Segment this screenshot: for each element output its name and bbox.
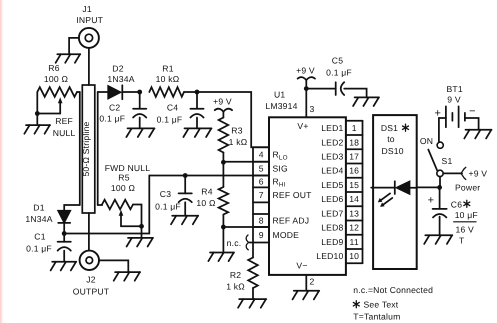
capacitor C6 10uF tantalum <box>424 187 478 245</box>
svg-text:n.c.: n.c. <box>227 238 242 248</box>
junction R4 bottom <box>221 225 226 230</box>
svg-text:15: 15 <box>349 180 359 190</box>
pin 2 stub (V-) <box>306 275 314 291</box>
svg-text:R1: R1 <box>162 64 173 74</box>
svg-text:R4: R4 <box>201 187 212 197</box>
svg-text:INPUT: INPUT <box>76 15 103 25</box>
svg-text:3: 3 <box>310 104 315 114</box>
pin labels LED1-LED10 <box>316 123 343 261</box>
svg-text:0.1 μF: 0.1 μF <box>157 114 183 124</box>
svg-text:10 μF: 10 μF <box>455 210 478 220</box>
diode D2 1N34A <box>98 64 140 100</box>
svg-text:+9 V: +9 V <box>213 97 232 107</box>
resistor R2 1k <box>226 258 258 300</box>
note n.c. <box>353 285 433 295</box>
svg-text:2: 2 <box>310 277 315 287</box>
wire SIG to pin 5 <box>223 161 269 163</box>
switch S1 <box>420 136 453 187</box>
svg-text:1N34A: 1N34A <box>25 214 52 224</box>
stripline Z1 (50-ohm stripline) <box>81 85 95 213</box>
battery BT1 9V <box>434 84 478 142</box>
svg-text:10 kΩ: 10 kΩ <box>156 74 180 84</box>
svg-text:1: 1 <box>352 123 357 133</box>
svg-text:BT1: BT1 <box>447 84 463 94</box>
svg-text:D2: D2 <box>112 64 123 74</box>
resistor R1 10k <box>149 64 197 97</box>
junction C3 tap <box>183 173 188 178</box>
pin boxes 4-9 (left side of U1) <box>253 147 269 257</box>
svg-text:LED8: LED8 <box>321 223 343 233</box>
svg-text:5: 5 <box>259 164 264 174</box>
capacitor C5 0.1uF <box>306 55 366 97</box>
svg-text:C5: C5 <box>332 55 343 65</box>
ground C5 <box>353 97 379 106</box>
svg-text:C6: C6 <box>451 200 462 210</box>
capacitor C3 0.1uF <box>155 176 198 225</box>
svg-text:U1: U1 <box>274 90 285 100</box>
resistor R3 1k <box>219 118 248 163</box>
wire R4 node to pin 8 (REF ADJ) <box>223 226 269 228</box>
svg-text:LED10: LED10 <box>316 251 343 261</box>
svg-text:17: 17 <box>349 152 359 162</box>
svg-text:LED6: LED6 <box>321 194 343 204</box>
junction SIG node (R3/R4/pin5) <box>221 160 226 165</box>
svg-text:+9 V: +9 V <box>469 168 488 178</box>
svg-text:n.c.=Not Connected: n.c.=Not Connected <box>353 285 433 295</box>
junction switch/C6/LED node <box>437 185 442 190</box>
diode D1 1N34A <box>25 203 79 234</box>
pin 3 stub (V+) <box>306 89 314 117</box>
LED symbol inside DS box <box>371 181 417 207</box>
svg-text:7: 7 <box>259 190 264 200</box>
junction R1-C4 <box>195 90 200 95</box>
svg-text:16 V: 16 V <box>456 225 475 235</box>
connector J1 (INPUT) <box>76 4 103 48</box>
svg-text:DS10: DS10 <box>381 146 403 156</box>
svg-text:D1: D1 <box>33 203 44 213</box>
wire right sense line (D2/R5 pickup) <box>97 92 99 205</box>
junction +9V/C5/pin3 <box>304 86 309 91</box>
svg-text:FWD NULL: FWD NULL <box>105 163 151 173</box>
svg-text:16: 16 <box>349 166 359 176</box>
svg-text:0.1 μF: 0.1 μF <box>326 68 352 78</box>
svg-text:R5: R5 <box>118 173 129 183</box>
svg-text:+: + <box>428 195 435 207</box>
svg-text:REF ADJ: REF ADJ <box>273 216 310 226</box>
capacitor C1 0.1uF <box>26 232 76 271</box>
svg-text:9 V: 9 V <box>447 95 461 105</box>
wire J1 shell to ground <box>69 38 79 54</box>
potentiometer R5 100-ohm (FWD NULL) <box>98 163 151 226</box>
svg-text:1 kΩ: 1 kΩ <box>229 137 248 147</box>
svg-text:R2: R2 <box>230 270 241 280</box>
svg-text:T=Tantalum: T=Tantalum <box>353 312 400 322</box>
svg-text:R6: R6 <box>48 63 59 73</box>
svg-text:100 Ω: 100 Ω <box>111 183 136 193</box>
svg-text:LED3: LED3 <box>321 152 343 162</box>
ground J1 <box>56 54 81 63</box>
svg-text:V+: V+ <box>297 121 308 131</box>
svg-text:12: 12 <box>349 223 359 233</box>
wire J1 center to stripline top <box>88 48 90 85</box>
capacitor C4 0.1uF <box>157 92 212 137</box>
svg-text:14: 14 <box>349 194 359 204</box>
ground J2 <box>114 272 140 281</box>
junction R5 wiper <box>139 224 144 229</box>
junction D1-C1 <box>62 231 67 236</box>
wire R1/C4 node to pin 4 (RLO) <box>197 92 269 147</box>
svg-text:J2: J2 <box>86 275 95 285</box>
svg-text:0.1 μF: 0.1 μF <box>26 244 52 254</box>
svg-text:NULL: NULL <box>53 128 76 138</box>
svg-text:1 kΩ: 1 kΩ <box>226 282 245 292</box>
svg-text:50-Ω Stripline: 50-Ω Stripline <box>81 121 91 176</box>
svg-text:13: 13 <box>349 209 359 219</box>
svg-text:LM3914: LM3914 <box>265 101 297 111</box>
junction R6 wiper <box>35 111 40 116</box>
pin boxes 1,18-10 (right side of U1) <box>346 121 363 263</box>
svg-text:0.1 μF: 0.1 μF <box>99 113 125 123</box>
svg-text:LED5: LED5 <box>321 180 343 190</box>
svg-text:V−: V− <box>296 261 307 271</box>
ground R5 <box>127 226 153 246</box>
wire switch to +9V tag <box>443 167 487 192</box>
svg-text:C2: C2 <box>109 102 120 112</box>
svg-text:REF: REF <box>55 116 73 126</box>
power +9V tap at C5 <box>296 65 315 89</box>
svg-text:Power: Power <box>455 182 480 192</box>
svg-text:See Text: See Text <box>364 299 399 309</box>
svg-text:LED2: LED2 <box>321 137 343 147</box>
potentiometer R6 100-ohm (REF NULL) <box>37 63 80 138</box>
wire stripline bottom to J2 <box>88 213 90 251</box>
svg-text:100 Ω: 100 Ω <box>44 74 69 84</box>
svg-text:LED4: LED4 <box>321 166 343 176</box>
svg-text:R3: R3 <box>231 126 242 136</box>
svg-text:C4: C4 <box>167 102 178 112</box>
ground R2 <box>238 299 266 308</box>
svg-text:OUTPUT: OUTPUT <box>73 287 110 297</box>
pin 9 n.c. stub and brace <box>227 235 269 250</box>
connector J2 (OUTPUT) <box>73 251 110 297</box>
op-amp U1 LM3914 body <box>265 90 346 275</box>
wire LED to switch node <box>417 186 440 188</box>
svg-text:MODE: MODE <box>273 230 300 240</box>
svg-text:−: − <box>469 105 476 117</box>
svg-text:1N34A: 1N34A <box>107 74 134 84</box>
note see text <box>353 299 398 309</box>
svg-text:18: 18 <box>349 137 359 147</box>
svg-text:8: 8 <box>259 216 264 226</box>
svg-text:+9 V: +9 V <box>296 65 315 75</box>
svg-text:REF OUT: REF OUT <box>273 190 313 200</box>
svg-text:to: to <box>387 134 395 144</box>
pin numbers 4-9 <box>259 150 264 240</box>
resistor R4 10-ohm <box>196 162 228 227</box>
LED module DS1 to DS10 box <box>373 115 417 269</box>
svg-text:C3: C3 <box>160 189 171 199</box>
svg-text:6: 6 <box>259 177 264 187</box>
wire RHI to pin 6 <box>149 175 269 177</box>
svg-text:11: 11 <box>350 237 359 247</box>
ground R6 <box>24 114 50 134</box>
svg-text:0.1 μF: 0.1 μF <box>155 201 181 211</box>
svg-text:J1: J1 <box>82 4 91 14</box>
svg-text:9: 9 <box>259 230 264 240</box>
wire left sense line (R6/D1 pickup) <box>79 92 81 205</box>
svg-text:T: T <box>459 235 465 245</box>
svg-text:C1: C1 <box>34 232 45 242</box>
svg-text:DS1: DS1 <box>381 123 398 133</box>
wire J2 shell to ground <box>99 260 128 272</box>
svg-text:LED9: LED9 <box>321 237 343 247</box>
ground battery <box>464 130 491 139</box>
wire D1 node to RHI riser <box>64 176 149 234</box>
svg-text:S1: S1 <box>442 156 453 166</box>
ground V- <box>293 291 320 300</box>
svg-text:ON: ON <box>420 136 433 146</box>
junction D2-C2 <box>137 90 142 95</box>
svg-text:LED7: LED7 <box>321 209 343 219</box>
pin labels RLO SIG RHI REF-OUT REF-ADJ MODE <box>273 150 313 240</box>
svg-text:4: 4 <box>259 150 264 160</box>
capacitor C2 0.1uF <box>99 92 154 137</box>
ground R4 <box>208 227 234 261</box>
svg-text:10: 10 <box>349 251 359 261</box>
svg-text:LED1: LED1 <box>321 123 343 133</box>
power +9V tap at R3 <box>213 97 232 118</box>
note tantalum <box>353 312 400 322</box>
svg-text:SIG: SIG <box>273 164 289 174</box>
svg-text:10 Ω: 10 Ω <box>196 198 216 208</box>
pin numbers 1,18-10 <box>349 123 359 261</box>
